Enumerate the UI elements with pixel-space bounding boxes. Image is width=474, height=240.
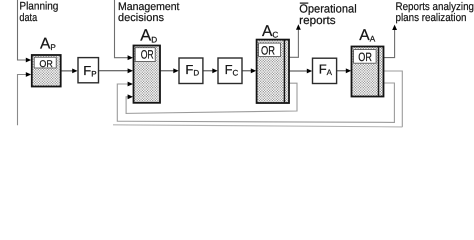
svg-text:OR: OR (358, 50, 372, 64)
svg-text:OR: OR (261, 44, 275, 58)
divider AC (283, 40, 285, 102)
arrow into FC (212, 68, 217, 73)
arrow into FD (173, 68, 178, 73)
arrow into AD input 3 (128, 82, 133, 87)
arrow into AD input 4 (128, 94, 133, 99)
OR patch AD (135, 48, 155, 62)
wire: AP second input riser (18, 75, 29, 126)
box AP (32, 55, 61, 87)
wire: bottom feedback line (fades left in scan) (113, 125, 402, 127)
svg-text:OR: OR (39, 59, 52, 70)
svg-text:Planning: Planning (19, 1, 58, 13)
box AA (with back-panel divider) (352, 47, 384, 97)
wire: FC to AC (242, 70, 253, 72)
OR patch AC (259, 43, 281, 56)
wire: AC up-arrow to operational reports (289, 29, 298, 58)
wire: FP output to AD (99, 70, 129, 72)
wire: AC to FA (289, 70, 309, 72)
wire: FA to AA (337, 70, 348, 72)
OR patch AA (354, 50, 377, 64)
arrow into AP input 2 (26, 72, 31, 77)
wire: FD to FC (203, 70, 215, 72)
arrow into FP (72, 69, 77, 74)
arrow into AP input 1 (26, 58, 31, 63)
svg-text:decisions: decisions (118, 12, 165, 24)
svg-text:data: data (19, 12, 38, 24)
wire: feedback from AA out-c (y=121.8 line) into AD third input (117, 83, 394, 122)
box FP (78, 58, 99, 83)
arrow into FA (307, 69, 312, 74)
arrow into AD input 1 (mgmt) (128, 55, 133, 60)
box FC (218, 58, 242, 84)
box AC (with back-panel divider) (257, 40, 289, 103)
svg-text:OR: OR (141, 47, 154, 61)
svg-text:plans realization: plans realization (396, 12, 467, 24)
arrowheads (26, 24, 397, 99)
arrow into AD input 2 (from FP) (128, 68, 133, 73)
wire: feedback from AC out-c (y=112 line) into AD fourth input (126, 83, 297, 113)
arrow up to reports analyzing (392, 25, 397, 30)
wire: AA up-arrow to reports analyzing (384, 29, 395, 58)
OR patch AP (34, 57, 56, 68)
divider AA (378, 47, 380, 95)
wire: planning data input vertical into AP (18, 0, 29, 60)
wire: AD output to FD (160, 70, 176, 72)
wire: management decisions vertical into AD (115, 0, 129, 58)
text operational reports (with stray macron over O) (300, 2, 309, 4)
box FA (313, 58, 337, 83)
arrow into AC (251, 68, 256, 73)
box AD (134, 46, 161, 103)
wire: OR(AP) output to FP (61, 70, 75, 72)
arrow up to operational reports (296, 24, 301, 29)
arrow into AA (346, 68, 351, 73)
wire: feedback from AA out-b down right side (384, 71, 403, 127)
box FD (179, 58, 203, 84)
svg-text:reports: reports (299, 14, 336, 27)
